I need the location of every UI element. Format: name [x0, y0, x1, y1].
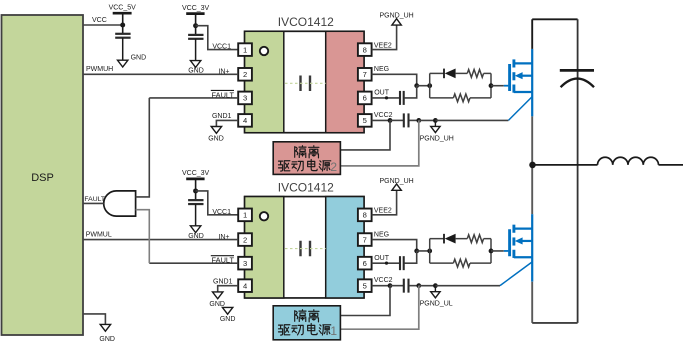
- node pgnd stub U1: [433, 118, 438, 123]
- wire OUT U1 pin6: [372, 97, 400, 99]
- resistor R gate-off (U1): [453, 94, 470, 102]
- wire FAULT (gate to DSP): [83, 202, 104, 204]
- svg-text:GND: GND: [99, 336, 115, 343]
- capacitor C2 (VCC_3V decoupling U1): [188, 34, 203, 36]
- wire FAULT net to U2 pin3: [149, 262, 238, 264]
- wire OUT cap up U1: [404, 86, 416, 98]
- svg-text:VCC2: VCC2: [374, 112, 393, 119]
- svg-text:7: 7: [363, 70, 367, 79]
- inductor L1: [598, 157, 659, 165]
- svg-text:OUT: OUT: [374, 90, 390, 97]
- ground GND (VCC_5V): [118, 60, 128, 67]
- AND gate (fault combine, mirrored): [104, 191, 136, 216]
- wire top branch to right U2: [484, 238, 491, 240]
- IC U1 pin1 dot: [260, 47, 268, 55]
- wire to gate of Q1: [491, 85, 504, 87]
- svg-text:NEG: NEG: [374, 66, 389, 73]
- wire VCC from DSP: [83, 24, 123, 26]
- capacitor C gate (U2 OUT): [399, 256, 401, 270]
- svg-text:1: 1: [243, 211, 247, 220]
- node network output U2: [489, 249, 494, 254]
- svg-text:PWMUL: PWMUL: [86, 231, 112, 238]
- svg-text:2: 2: [243, 70, 247, 79]
- svg-text:PGND_UH: PGND_UH: [420, 135, 454, 142]
- node VCC_3V junction (U1): [193, 23, 198, 28]
- wire kelvin diagonal U1: [508, 97, 532, 121]
- svg-text:GND: GND: [131, 55, 147, 62]
- svg-text:FAULT: FAULT: [84, 196, 105, 203]
- IC U1 pin 2 box: [238, 68, 252, 81]
- op-to IC U2 IVCO1412 body: [245, 197, 364, 298]
- wire top branch lead U2: [430, 238, 444, 240]
- node VCC2 b U2: [416, 283, 421, 288]
- wire VEE2 U1 pin8 to PGND_UH: [372, 25, 397, 50]
- transistor Q2 body arrow: [522, 240, 533, 242]
- svg-text:GND: GND: [220, 316, 236, 323]
- capacitor C gate (U1 OUT): [399, 91, 401, 105]
- wire VCC2 U2 pin5: [372, 285, 390, 287]
- node pgnd stub U2: [433, 283, 438, 288]
- ground GND (U1 GND1): [211, 127, 221, 134]
- ground GND (U2 GND1): [213, 292, 223, 299]
- wire supply- to PGND U1: [340, 120, 418, 165]
- svg-text:8: 8: [363, 211, 367, 220]
- svg-text:3: 3: [243, 259, 247, 268]
- isolated supply box 2: [273, 142, 340, 175]
- node network output U1: [489, 83, 494, 88]
- svg-text:5: 5: [363, 281, 367, 290]
- wire cap to ground (U2): [195, 204, 197, 226]
- svg-text:VCC_3V: VCC_3V: [182, 170, 210, 177]
- wire inductor output: [659, 164, 684, 166]
- ground GND (extra): [222, 307, 232, 314]
- wire to pgnd stub U1: [419, 119, 436, 121]
- svg-text:OUT: OUT: [374, 255, 390, 262]
- network frame right U1: [490, 73, 492, 98]
- isolated supply box 1: [273, 306, 340, 340]
- wire VCC_3V rail down (U1): [195, 14, 197, 35]
- IC U2 pin 3 box: [238, 257, 252, 270]
- svg-text:VCC_3V: VCC_3V: [182, 5, 210, 12]
- wire bus right vertical: [577, 19, 579, 323]
- svg-text:IN+: IN+: [218, 69, 229, 76]
- svg-text:8: 8: [363, 45, 367, 54]
- wire cap to ground (U1): [195, 39, 197, 61]
- wire Q1 drain to top rail: [531, 19, 533, 49]
- ground GND (DSP): [100, 324, 110, 331]
- power rail VCC_3V (U1): [186, 12, 204, 15]
- capacitor C1 (VCC_5V decoupling): [115, 33, 130, 35]
- IC U2 pin 2 box: [238, 233, 252, 246]
- wire top branch to right U1: [484, 72, 491, 74]
- svg-text:IVCO1412: IVCO1412: [278, 15, 334, 29]
- wire kelvin source U2: [435, 285, 500, 287]
- svg-text:6: 6: [363, 259, 367, 268]
- wire bottom branch right U2: [470, 262, 491, 264]
- wire supply+ to VCC2 U2: [340, 286, 390, 316]
- ground PGND_UH (kelvin U1): [434, 120, 436, 126]
- network frame right U2: [490, 239, 492, 264]
- ground GND (VCC_3V U2): [190, 226, 200, 233]
- svg-text:PGND_UL: PGND_UL: [420, 301, 453, 308]
- wire VEE2 U2 pin8 to PGND_UH: [372, 190, 397, 215]
- wire VCC_3V to VCC1 pin 1 (U1): [196, 26, 239, 50]
- resistor R gate-on (U1): [467, 70, 483, 78]
- wire gate to U1 FAULT: [136, 98, 150, 197]
- wire cap to pgnd node U2: [409, 285, 419, 287]
- transistor Q2 vertical: [531, 214, 533, 282]
- svg-text:GND1: GND1: [212, 113, 232, 120]
- IC U1 pin 1 box: [238, 43, 252, 56]
- wire NEG U1 pin7: [372, 74, 417, 85]
- IC U1 pin 3 box: [238, 92, 252, 105]
- network frame left U2: [429, 239, 431, 264]
- svg-text:VEE2: VEE2: [374, 42, 392, 49]
- svg-text:2: 2: [243, 235, 247, 244]
- capacitor C vcc2 (U1): [403, 113, 405, 127]
- svg-text:5: 5: [363, 116, 367, 125]
- wire cap to ground: [122, 38, 124, 61]
- wire OUT U2 pin6: [372, 262, 400, 264]
- wire junction to network U2: [417, 250, 430, 252]
- DSP block: [2, 15, 84, 335]
- wire PWMUL (DSP to U2 IN+): [83, 239, 238, 241]
- ground PGND_UL (kelvin U2): [434, 286, 436, 292]
- wire bottom branch lead U2: [430, 262, 454, 264]
- svg-text:IVCO1412: IVCO1412: [278, 180, 334, 194]
- svg-text:VCC1: VCC1: [212, 209, 231, 216]
- IC U2 pin 6 box: [358, 257, 372, 270]
- IC U1 pin 7 box: [358, 68, 372, 81]
- wire VCC_3V rail down (U2): [195, 179, 197, 200]
- supply box text line1 (1): [295, 310, 306, 322]
- diode D (U2 gate): [443, 234, 445, 244]
- wire VCC_3V to VCC1 pin 1 (U2): [196, 191, 239, 215]
- IC U2 pin 8 box: [358, 209, 372, 222]
- supply box text line2 (1): [279, 325, 290, 335]
- IC U1 pin 5 box: [358, 114, 372, 127]
- svg-text:1: 1: [330, 324, 337, 338]
- svg-text:VCC2: VCC2: [374, 277, 393, 284]
- node NEG/OUT junction U2: [414, 249, 419, 254]
- svg-text:7: 7: [363, 235, 367, 244]
- IC U2 pin1 dot: [260, 212, 268, 220]
- svg-text:FAULT: FAULT: [212, 90, 235, 99]
- wire NEG U2 pin7: [372, 240, 417, 251]
- wire phase to inductor: [532, 164, 597, 166]
- svg-text:VEE2: VEE2: [374, 208, 392, 215]
- transistor Q2 source stub: [514, 256, 532, 258]
- IC U2 pin 1 box: [238, 209, 252, 222]
- port PGND_UH (above U2): [392, 184, 401, 190]
- svg-text:1: 1: [243, 45, 247, 54]
- svg-text:GND: GND: [208, 135, 224, 142]
- node phase midpoint: [529, 162, 536, 169]
- wire cap to pgnd node U1: [409, 119, 419, 121]
- IC U1 pin 6 box: [358, 92, 372, 105]
- wire GND1 U1 pin4: [216, 120, 238, 126]
- wire VCC2 to cap U1: [390, 119, 403, 121]
- wire Q2 source to bottom rail: [531, 282, 533, 323]
- supply box text line2 (2): [279, 161, 290, 171]
- transistor Q2 channel segments: [512, 225, 515, 233]
- wire bottom branch lead U1: [430, 97, 454, 99]
- node NEG/OUT junction U1: [414, 83, 419, 88]
- capacitor C bus plate: [560, 69, 594, 72]
- wire bottom rail: [532, 322, 577, 324]
- svg-text:PGND_UH: PGND_UH: [379, 178, 413, 185]
- IC U1 pin 4 box: [238, 114, 252, 127]
- node VCC junction: [120, 23, 125, 28]
- wire VCC_5V rail to cap: [122, 13, 124, 34]
- transistor Q1 gate bar: [508, 64, 511, 91]
- wire supply- to PGND U2: [340, 286, 418, 330]
- capacitor C vcc2 (U2): [403, 279, 405, 293]
- IC U1 isolation capacitor: [299, 76, 301, 92]
- resistor R gate-off (U2): [453, 259, 470, 267]
- svg-text:PWMUH: PWMUH: [86, 66, 113, 73]
- svg-text:4: 4: [243, 116, 247, 125]
- power rail VCC_5V: [113, 12, 132, 15]
- wire FAULT net to U1 pin3: [149, 97, 238, 99]
- supply box text line1 (2): [295, 146, 306, 158]
- wire to gate of Q2: [491, 250, 504, 252]
- wire kelvin diagonal U2: [500, 262, 532, 286]
- network frame left U1: [429, 73, 431, 98]
- IC U2 pin 5 box: [358, 279, 372, 292]
- resistor R gate-on (U2): [467, 235, 483, 243]
- wire VCC2 to cap U2: [390, 285, 403, 287]
- transistor Q1 body arrow: [522, 75, 533, 77]
- diode D (U1 gate): [443, 69, 445, 79]
- node VCC2 a U2: [388, 283, 393, 288]
- node VCC_3V junction (U2): [193, 188, 198, 193]
- svg-text:GND1: GND1: [213, 278, 233, 285]
- wire GND1 U2 pin4: [218, 286, 239, 292]
- svg-text:4: 4: [243, 281, 247, 290]
- wire bottom branch right U1: [470, 97, 491, 99]
- svg-text:NEG: NEG: [374, 231, 389, 238]
- port PGND_UH (above U1): [392, 19, 401, 25]
- svg-text:FAULT: FAULT: [212, 256, 235, 265]
- IC U1 pin 8 box: [358, 43, 372, 56]
- transistor Q1 vertical: [531, 49, 533, 117]
- svg-text:PGND_UH: PGND_UH: [379, 13, 413, 20]
- wire junction to network U1: [417, 85, 430, 87]
- transistor Q1 source stub: [514, 91, 532, 93]
- wire VCC2 U1 pin5: [372, 119, 390, 121]
- capacitor C bus curved plate: [561, 79, 594, 88]
- wire to pgnd stub U2: [419, 285, 436, 287]
- wire PWMUH (DSP to U1 IN+): [83, 73, 238, 75]
- wire Q1 source to phase node: [531, 116, 533, 164]
- svg-text:IN+: IN+: [218, 234, 229, 241]
- wire kelvin source U1: [435, 119, 508, 121]
- wire phase to Q2 drain: [531, 165, 533, 214]
- IC U2 isolation capacitor: [299, 241, 301, 257]
- IC U2 pin 7 box: [358, 233, 372, 246]
- wire top branch lead U1: [430, 72, 444, 74]
- capacitor C2 (VCC_3V decoupling U2): [188, 199, 203, 201]
- transistor Q2 drain stub: [514, 228, 532, 230]
- wire supply+ to VCC2 U1: [340, 120, 390, 149]
- node VCC2 b U1: [416, 118, 421, 123]
- svg-text:2: 2: [330, 160, 337, 174]
- wire top rail: [532, 18, 577, 20]
- transistor Q1 drain stub: [514, 62, 532, 64]
- svg-text:3: 3: [243, 94, 247, 103]
- wire DSP to ground: [83, 314, 105, 325]
- transistor Q1 channel segments: [512, 59, 515, 67]
- op-to IC U1 IVCO1412 body: [245, 31, 364, 132]
- transistor Q2 gate bar: [508, 229, 511, 256]
- node VCC2 a U1: [388, 118, 393, 123]
- wire gate to U2 FAULT: [136, 210, 150, 263]
- svg-text:VCC_5V: VCC_5V: [109, 5, 137, 12]
- svg-text:VCC: VCC: [92, 17, 107, 24]
- ground GND (VCC_3V U1): [190, 61, 200, 68]
- svg-text:VCC1: VCC1: [212, 44, 231, 51]
- power rail VCC_3V (U2): [186, 178, 204, 181]
- svg-text:DSP: DSP: [31, 172, 54, 184]
- wire OUT cap up U2: [404, 251, 416, 263]
- svg-text:6: 6: [363, 94, 367, 103]
- IC U2 pin 4 box: [238, 279, 252, 292]
